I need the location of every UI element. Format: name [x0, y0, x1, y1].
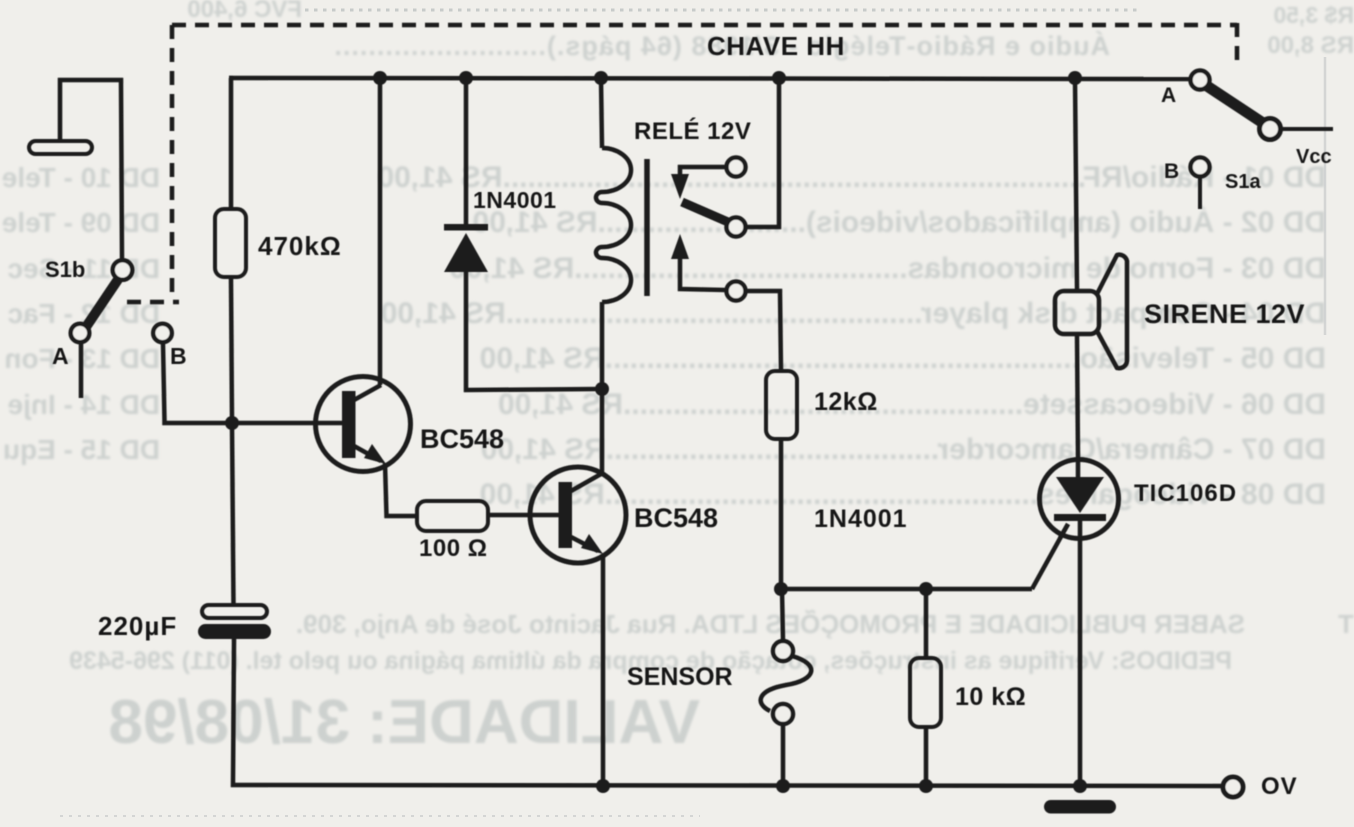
wire left branch down to R 470k — [229, 78, 231, 210]
svg-text:CHAVE HH: CHAVE HH — [707, 31, 845, 61]
node siren rail — [1068, 71, 1082, 85]
siren SIRENE 12V driver — [1055, 291, 1099, 334]
svg-text:DD 09 - Tele: DD 09 - Tele — [2, 207, 160, 238]
wire Q1 collector to rail — [378, 78, 383, 385]
svg-text:B: B — [170, 343, 187, 369]
wire Q2 emitter to 0V rail — [601, 554, 606, 786]
svg-text:DD 03 - Forno de microondas...: DD 03 - Forno de microondas.............… — [449, 252, 1326, 285]
svg-text:B: B — [1164, 160, 1179, 183]
svg-text:A: A — [52, 343, 69, 369]
wire node to diode D1 — [466, 272, 602, 390]
relay arrow up — [671, 234, 689, 259]
node SCR rail — [1073, 779, 1087, 793]
node relay common rail — [772, 71, 786, 85]
svg-text:S1a: S1a — [1225, 171, 1261, 193]
wire node to R 10k — [924, 589, 929, 658]
siren cone — [1097, 255, 1127, 369]
wire sensor to 0V rail — [781, 724, 786, 786]
relay coil RELE 12V — [596, 148, 631, 302]
sensor wavy link — [761, 656, 812, 711]
svg-text:DD 15 - Equ: DD 15 - Equ — [3, 434, 160, 465]
relay contact NC top — [727, 158, 746, 177]
svg-text:DD 10 - Tele: DD 10 - Tele — [2, 162, 160, 193]
svg-text:TIC106D: TIC106D — [1134, 480, 1237, 507]
wire R100 to Q2 base — [488, 513, 559, 518]
wire stub A — [79, 343, 84, 398]
wire 470k to node B — [231, 277, 232, 423]
node gate junction left — [774, 582, 788, 596]
wire node to Q1 base — [232, 421, 342, 426]
wire NC contact elbow — [680, 167, 726, 176]
node Q2 emitter rail — [596, 779, 610, 793]
svg-text:FVC 6,400: FVC 6,400 — [187, 0, 302, 23]
contact B (S1b) — [153, 324, 172, 343]
svg-text:SABER PUBLICIDADE E PROMOÇÕES: SABER PUBLICIDADE E PROMOÇÕES LTDA. Rua … — [296, 609, 1245, 639]
svg-text:RELÉ 12V: RELÉ 12V — [634, 117, 751, 145]
sensor contact bottom — [773, 704, 793, 724]
resistor 470k — [215, 209, 246, 277]
wire siren to SCR — [1077, 334, 1078, 460]
node sensor rail — [776, 779, 790, 793]
node base junction — [225, 416, 239, 430]
capacitor 220uF plate top — [202, 605, 267, 618]
svg-text:DD 14 - Inje: DD 14 - Inje — [8, 389, 160, 420]
wire 12k to gate node — [779, 439, 784, 589]
sensor plate probe — [29, 80, 122, 261]
wire Q2 collector to relay node — [600, 389, 605, 474]
wire to Vcc — [1281, 127, 1333, 131]
wire top supply rail — [229, 78, 1191, 79]
svg-text:SIRENE 12V: SIRENE 12V — [1144, 299, 1305, 329]
wire node to sensor — [782, 589, 783, 641]
terminal 0V — [1223, 777, 1243, 797]
wire 10k to 0V rail — [924, 727, 929, 786]
svg-text:SENSOR: SENSOR — [627, 663, 733, 691]
contact Vcc (S1a) — [1260, 119, 1281, 140]
svg-text:220µF: 220µF — [98, 611, 177, 641]
resistor 12k — [766, 371, 797, 439]
resistor 10k — [910, 658, 941, 727]
svg-text:R$ 3,50: R$ 3,50 — [1273, 2, 1354, 28]
node 10k junction — [919, 582, 933, 596]
svg-text:T: T — [1338, 609, 1354, 639]
svg-text:100 Ω: 100 Ω — [419, 535, 487, 562]
node 10k rail — [919, 779, 933, 793]
switch S1a blade — [1207, 86, 1263, 123]
wire rail to relay common contact — [746, 78, 779, 227]
svg-text:12kΩ: 12kΩ — [814, 388, 878, 416]
relay contact common — [727, 218, 746, 237]
wire SCR cathode to 0V rail — [1078, 521, 1083, 786]
wire Q1 emitter to R 100 — [385, 463, 417, 516]
svg-text:470kΩ: 470kΩ — [258, 231, 342, 261]
svg-text:BC548: BC548 — [634, 503, 718, 533]
switch S1b blade — [86, 278, 119, 327]
svg-text:DD 02 - Áudio (amplificados/vi: DD 02 - Áudio (amplificados/videois)....… — [472, 205, 1326, 239]
svg-text:OV: OV — [1261, 773, 1298, 800]
node coil bottom — [595, 382, 609, 396]
sensor contact top — [773, 641, 793, 661]
wire capacitor to 0V rail — [233, 639, 1222, 786]
svg-text:10 kΩ: 10 kΩ — [955, 683, 1026, 711]
svg-text:1N4001: 1N4001 — [814, 505, 908, 533]
wire B to base node — [163, 343, 232, 423]
diode 1N4001 D1 — [444, 224, 488, 272]
svg-text:1N4001: 1N4001 — [473, 187, 557, 213]
svg-text:Vcc: Vcc — [1296, 146, 1332, 168]
resistor 100 ohm — [417, 501, 488, 531]
contact B (S1a) — [1191, 158, 1210, 177]
wire D1 to rail — [464, 78, 469, 224]
svg-text:RS 8,00: RS 8,00 — [1267, 32, 1354, 59]
node collector Q1 rail — [373, 71, 387, 85]
wire stub B S1a — [1198, 177, 1202, 209]
wire gate diagonal to SCR — [1032, 524, 1068, 589]
svg-text:A: A — [1161, 84, 1176, 107]
transistor Q1 BC548 — [316, 377, 411, 472]
wire arrow to NO contact — [680, 257, 726, 290]
contact A (S1a) — [1191, 71, 1210, 90]
svg-text:S1b: S1b — [45, 257, 85, 282]
wire rail to relay coil — [601, 78, 602, 148]
switch S1b pivot — [113, 260, 133, 280]
svg-text:DD 05 - Televisão.............: DD 05 - Televisão.......................… — [480, 342, 1326, 375]
relay core bar — [644, 159, 650, 296]
node D1 rail — [459, 71, 473, 85]
capacitor 220uF plate bottom — [198, 624, 271, 639]
relay armature arrow down — [671, 174, 689, 199]
SCR TIC106D — [1040, 460, 1119, 539]
dashed enclosure CHAVE HH — [127, 23, 1237, 302]
svg-text:BC548: BC548 — [420, 424, 504, 454]
node relay top rail — [594, 71, 608, 85]
wire rail to siren — [1075, 78, 1077, 291]
relay armature bar — [682, 202, 728, 222]
wire NO contact to R 12k — [746, 291, 781, 371]
wire coil to node — [600, 302, 605, 389]
svg-text:DD 07 - Câmera/Camcorder......: DD 07 - Câmera/Camcorder................… — [481, 433, 1326, 466]
svg-text:VALIDADE: 31/08/98: VALIDADE: 31/08/98 — [108, 688, 700, 757]
wire node down to capacitor — [232, 423, 234, 606]
ground bar — [1044, 800, 1116, 814]
wire gate line horizontal — [781, 587, 1032, 592]
svg-text:DD 06 - Videocassete..........: DD 06 - Videocassete....................… — [498, 388, 1326, 421]
contact A (S1b) — [71, 324, 90, 343]
transistor Q2 BC548 — [530, 467, 626, 563]
relay contact NO bottom — [727, 282, 746, 301]
